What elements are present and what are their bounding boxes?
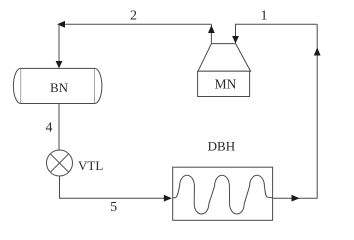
wire: MN funnel up to stream 2	[210, 24, 212, 43]
arrowhead right into DBH	[164, 195, 172, 202]
arrowhead down into MN funnel	[232, 36, 239, 43]
wire: valve outlet down and right to DBH (stream 5)	[60, 176, 171, 198]
hopper MN body	[198, 71, 250, 96]
hopper MN funnel	[198, 44, 251, 72]
svg-text:2: 2	[130, 9, 137, 24]
wire: stream 2 horizontal line from MN to BN	[60, 23, 211, 25]
heat exchanger DBH box	[173, 167, 273, 220]
svg-text:1: 1	[261, 9, 268, 24]
svg-text:VTL: VTL	[78, 158, 103, 173]
wire: DBH outlet to right riser	[273, 24, 318, 198]
svg-text:BN: BN	[50, 80, 69, 95]
heat exchanger coil wave	[173, 175, 273, 214]
svg-text:MN: MN	[215, 77, 237, 92]
wire: BN outlet down to valve	[58, 104, 60, 151]
arrowhead down into BN	[56, 61, 63, 68]
svg-text:4: 4	[46, 121, 53, 136]
arrowhead right on outlet	[292, 195, 300, 202]
vessel BN	[13, 68, 101, 103]
arrowhead up out of MN	[208, 25, 215, 33]
arrowhead left on stream 2	[57, 21, 65, 28]
wire: stream 1 horizontal to MN	[236, 24, 318, 43]
arrowhead up on riser (stream 1)	[314, 48, 321, 56]
svg-text:DBH: DBH	[208, 139, 235, 154]
svg-text:5: 5	[110, 200, 117, 215]
valve VTL	[47, 150, 73, 176]
wire: vertical drop into BN	[58, 24, 60, 68]
